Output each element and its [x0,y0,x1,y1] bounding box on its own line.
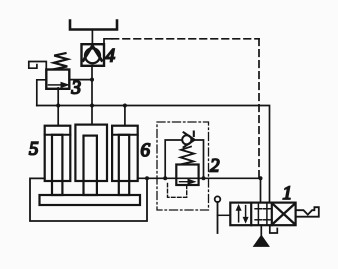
wire drop to cylinder 6 [124,106,126,126]
junction [90,104,94,108]
manual lever (right actuator) [296,207,319,217]
pump pressure source symbol [254,235,269,246]
junction [56,104,60,108]
pilot line dashed vertical [258,39,260,178]
main supply line [37,106,270,203]
wire valve 3 bottom port [57,88,59,106]
prefill valve 4 (pilot-operated check valve) [82,44,105,66]
upper tank (overhead fill tank) [70,21,117,30]
directional valve 1 body [230,203,295,226]
return line from cylinder 6 to valve 1 [138,178,261,202]
plunger cylinder middle [75,125,107,195]
pilot sense loop of unit 2 (dashed) [168,184,187,198]
svg-text:3: 3 [70,77,81,98]
valve 1 right box crossed arrows [274,205,294,224]
junction [202,176,206,180]
tank return hook [270,225,278,233]
svg-text:1: 1 [282,183,292,204]
wire valve4 down through junctions to middle cylinder [91,66,93,125]
pilot line dashed horizontal [112,38,259,40]
lever with knob (left actuator) [215,196,231,233]
junction [163,176,167,180]
press frame [30,178,147,221]
pilot line from valve 4 (solid stub) [104,39,112,44]
svg-text:5: 5 [29,139,39,160]
svg-text:2: 2 [210,156,220,177]
plunger cylinder 6 [112,126,138,195]
junction [123,104,127,108]
wire valve 3 right port to prefill line [69,79,92,81]
wire drop to cylinder 5 [57,106,59,126]
junction [259,176,263,180]
relief element of unit 2 [176,147,198,185]
press platform [40,195,141,205]
wire tank to prefill valve [91,30,93,45]
junction [90,78,94,82]
check valve of unit 2 (ball in seat) [165,132,203,179]
svg-text:6: 6 [140,140,150,161]
svg-text:4: 4 [105,46,115,67]
plunger cylinder 5 [45,126,71,195]
valve 1 centre box blocked ports [255,203,270,226]
relief valve 3 [46,53,69,89]
valve 1 left box arrows [236,205,248,223]
junction [145,176,149,180]
valve 3 pilot loop to main line [37,80,47,106]
valve 3 vent hook to tank [29,62,47,71]
pump pressure source line [260,225,262,235]
counterbalance unit 2 enclosure (chain line box) [157,122,209,210]
